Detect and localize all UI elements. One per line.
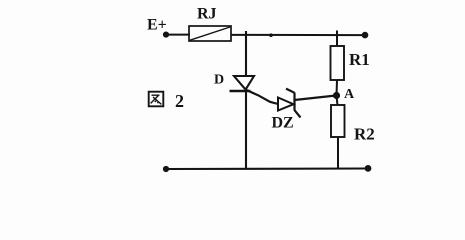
svg-text:R1: R1	[349, 50, 370, 69]
junction	[269, 33, 273, 37]
svg-text:A: A	[344, 87, 355, 102]
svg-text:2: 2	[175, 91, 184, 111]
terminal E+	[163, 31, 169, 37]
resistor RJ	[189, 26, 231, 41]
wire	[337, 137, 339, 169]
wire bottom	[166, 167, 368, 170]
wire	[245, 91, 247, 169]
terminal top-right	[362, 32, 369, 39]
terminal bottom-left	[163, 166, 169, 172]
thyristor D	[230, 76, 255, 91]
resistor R1	[331, 46, 345, 80]
wire	[166, 34, 190, 36]
wire	[336, 80, 339, 96]
svg-text:DZ: DZ	[272, 115, 294, 132]
wire gate	[246, 90, 278, 104]
svg-text:RJ: RJ	[197, 6, 217, 23]
node A	[333, 92, 340, 99]
wire	[337, 96, 338, 106]
figure label 图 2	[149, 91, 184, 111]
wire	[245, 31, 247, 77]
svg-text:E+: E+	[147, 17, 167, 34]
wire	[231, 34, 365, 36]
terminal bottom-right	[365, 165, 372, 172]
wire	[336, 31, 338, 47]
wire	[295, 96, 337, 101]
resistor R2	[331, 105, 345, 137]
zener diode DZ	[278, 89, 301, 118]
svg-text:R2: R2	[354, 125, 375, 144]
svg-text:D: D	[214, 72, 224, 87]
